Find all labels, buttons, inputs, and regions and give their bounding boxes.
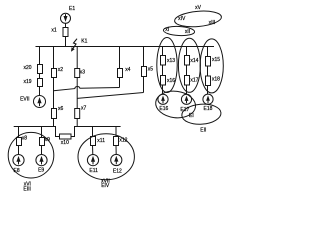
group ellipse EIV [78,134,134,180]
wire bus to x15 [207,47,209,57]
resistor x6 [52,109,57,119]
resistor x1 [63,28,68,37]
svg-text:x11: x11 [97,138,105,144]
wire bus to x11 [92,127,94,137]
wire bus to x5 [143,47,145,67]
svg-text:x14: x14 [190,58,198,64]
wire x5 to x3 [77,93,143,99]
svg-text:E18: E18 [204,106,213,112]
svg-text:E12: E12 [113,169,122,175]
group ellipse x13/x16 [157,38,177,93]
resistor x7 [75,109,80,119]
wire x1 to bus [65,37,67,47]
resistor x8 [17,138,22,146]
wire bus to x2 [53,47,55,69]
source E12 [111,154,122,165]
svg-text:x4: x4 [125,67,131,73]
svg-text:E1: E1 [69,6,75,12]
resistor x2 [52,69,57,78]
wire x16 to E16 [162,85,164,94]
svg-text:x8: x8 [22,136,28,142]
svg-text:x16: x16 [167,78,175,84]
svg-text:EIII: EIII [23,187,31,193]
wire bus to x12 [115,127,117,137]
wire x7 to lower bus [76,119,78,127]
resistor x15 [206,57,211,67]
wire bus to x14 [186,47,188,56]
svg-text:E8: E8 [14,168,20,174]
wire x20 to x19 [39,74,41,79]
wire x13 to x16 [162,65,164,76]
resistor x5 [142,67,147,77]
svg-text:EIV: EIV [101,183,110,189]
group ellipse xV xIV xIII [174,9,222,28]
wire bus to x9 [41,127,43,138]
svg-text:x17: x17 [190,78,198,84]
source E1 [61,13,71,23]
wire bus to x13 [162,47,164,56]
group ellipse EIII [8,132,54,178]
wire x18 to E18 [207,86,209,95]
wire x19 to EVII [39,87,41,96]
svg-text:x1: x1 [51,28,57,34]
svg-text:x13: x13 [167,58,175,64]
wire bus to x4 [119,47,121,69]
svg-text:x12: x12 [119,137,127,143]
svg-text:x5: x5 [148,66,154,72]
wire E1 to x1 [65,23,67,27]
source E9 [36,155,47,166]
resistor x14 [185,56,190,66]
bus top [36,46,215,48]
resistor x4 [118,69,123,78]
svg-text:xII: xII [185,29,190,35]
wire x6 to lower bus [53,119,55,127]
wire bus to x3 [76,47,78,69]
source EVII [34,96,46,108]
group ellipse EI [154,89,197,120]
resistor x3 [75,69,80,78]
svg-text:xI: xI [165,27,169,33]
svg-text:xIV: xIV [178,16,186,22]
svg-text:EVII: EVII [20,96,29,102]
group ellipse EII [181,103,221,126]
wire x5 down [143,77,145,93]
wire x8 to E8 [18,146,20,155]
wire x4 down [119,78,121,88]
svg-text:xV: xV [195,5,202,11]
svg-text:xIII: xIII [209,20,216,26]
source E17 [181,94,191,104]
resistor x17 [185,76,190,86]
wire x2 to x6 [53,78,55,109]
svg-text:x2: x2 [58,67,64,73]
wire x9 to E9 [41,146,43,155]
wire x14 to x17 [186,65,188,76]
reactor x10 [60,134,72,139]
lower bus left [14,127,60,137]
wire x4 to x2 with hop over x3 [54,87,120,91]
wire x12 to E12 [115,146,117,155]
source E16 [158,94,168,104]
svg-text:x20: x20 [24,65,32,71]
resistor x13 [161,56,166,66]
fault arrow K1 [71,39,77,52]
svg-text:x19: x19 [24,79,32,85]
svg-text:E9: E9 [38,168,44,174]
resistor x11 [91,137,96,146]
svg-text:x7: x7 [81,106,87,112]
svg-text:E16: E16 [159,106,168,112]
resistor x9 [40,138,45,146]
svg-text:x6: x6 [58,106,64,112]
group ellipse x15/x18 [200,39,223,93]
wire x15 to x18 [207,66,209,76]
wire x3 to x7 [76,78,78,109]
source E8 [13,155,24,166]
svg-text:x9: x9 [45,137,51,143]
resistor x12 [114,137,119,146]
svg-text:x15: x15 [212,57,220,63]
svg-text:E11: E11 [89,168,98,174]
svg-text:x10: x10 [61,140,69,146]
resistor x16 [161,76,166,86]
svg-text:x3: x3 [80,69,86,75]
source E18 [203,94,213,104]
wire bus to x8 [18,127,20,138]
wire x11 to E11 [92,146,94,155]
group ellipse x14/x17 [178,38,200,92]
group ellipse xI xII [163,26,195,37]
svg-text:K1: K1 [81,39,87,45]
resistor x18 [206,76,211,86]
lower bus right [71,127,121,137]
resistor x19 [38,79,43,87]
wire x17 to E17 [186,85,188,94]
svg-text:EI: EI [189,113,194,119]
svg-text:EII: EII [200,128,206,134]
svg-text:x18: x18 [212,77,220,83]
source E11 [87,155,98,166]
wire bus to x20 [39,47,41,65]
resistor x20 [38,65,43,74]
